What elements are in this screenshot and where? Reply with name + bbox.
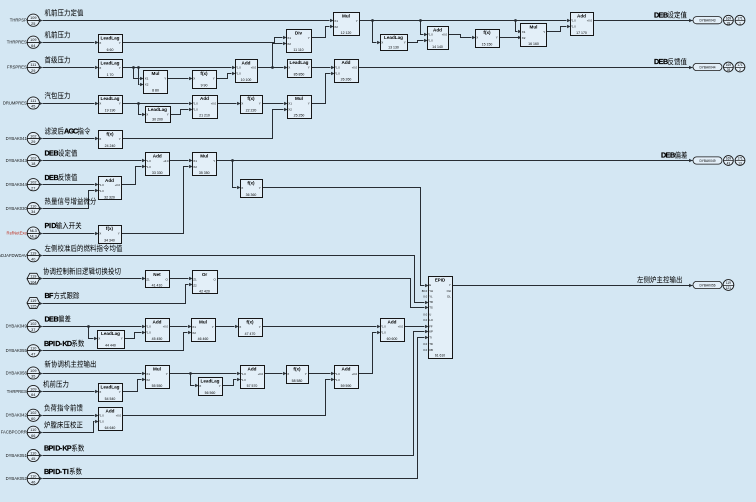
svg-text:45: 45 xyxy=(31,457,35,461)
svg-text:28: 28 xyxy=(727,68,731,72)
svg-text:YH: YH xyxy=(429,289,433,293)
svg-text:169: 169 xyxy=(726,157,732,161)
svg-text:*1.0: *1.0 xyxy=(99,183,104,187)
svg-text:P: P xyxy=(67,444,72,453)
svg-text:+0.0: +0.0 xyxy=(115,183,121,187)
svg-text:109: 109 xyxy=(30,369,36,373)
svg-text:21 210: 21 210 xyxy=(199,114,210,118)
svg-text:LeadLag: LeadLag xyxy=(148,107,167,112)
svg-text:119: 119 xyxy=(30,252,36,256)
svg-text:111: 111 xyxy=(30,63,36,67)
svg-text:*1.0: *1.0 xyxy=(428,33,433,37)
svg-text:I: I xyxy=(67,467,69,476)
svg-text:54 540: 54 540 xyxy=(105,397,116,401)
svg-text:6 60: 6 60 xyxy=(107,48,114,52)
svg-text:+0.0: +0.0 xyxy=(587,19,593,23)
svg-text:Y: Y xyxy=(119,41,121,45)
svg-text:FF: FF xyxy=(429,324,433,328)
svg-text:Y: Y xyxy=(167,113,169,117)
svg-text:169: 169 xyxy=(726,63,732,67)
svg-text:X1: X1 xyxy=(287,36,291,40)
svg-text:Y: Y xyxy=(219,384,221,388)
svg-text:Add: Add xyxy=(153,319,162,324)
svg-text:THRPRES: THRPRES xyxy=(7,40,27,45)
svg-text:57 570: 57 570 xyxy=(247,384,258,388)
svg-text:Add: Add xyxy=(106,409,115,414)
svg-text:RefNetExe: RefNetExe xyxy=(7,230,28,235)
svg-text:1: 1 xyxy=(739,21,741,25)
svg-text:47 470: 47 470 xyxy=(245,332,256,336)
svg-text:X: X xyxy=(99,137,101,141)
svg-text:DYBAK049: DYBAK049 xyxy=(6,324,28,329)
svg-text:DYBAK030: DYBAK030 xyxy=(6,206,28,211)
svg-text:f(x): f(x) xyxy=(293,367,301,372)
svg-text:0.0: 0.0 xyxy=(423,318,427,322)
svg-text:34: 34 xyxy=(31,210,35,214)
svg-text:Y: Y xyxy=(259,102,261,106)
svg-text:55 550: 55 550 xyxy=(152,384,163,388)
svg-text:46: 46 xyxy=(31,480,35,484)
svg-text:Add: Add xyxy=(342,367,351,372)
svg-text:TR: TR xyxy=(429,300,433,304)
svg-text:Mul: Mul xyxy=(199,319,207,324)
svg-text:X: X xyxy=(146,113,148,117)
svg-text:*1.0: *1.0 xyxy=(571,19,576,23)
svg-text:DYBAK056: DYBAK056 xyxy=(699,283,715,287)
svg-text:OH: OH xyxy=(447,289,451,293)
svg-text:45: 45 xyxy=(31,105,35,109)
svg-text:24 240: 24 240 xyxy=(105,144,116,148)
svg-text:Y: Y xyxy=(213,159,215,163)
svg-text:58 580: 58 580 xyxy=(292,379,303,383)
svg-text:TS: TS xyxy=(429,306,433,310)
svg-text:X: X xyxy=(193,77,195,81)
svg-text:32 320: 32 320 xyxy=(104,195,115,199)
svg-text:66: 66 xyxy=(31,434,35,438)
svg-text:DYBAK043: DYBAK043 xyxy=(699,19,715,23)
svg-text:102: 102 xyxy=(30,181,36,185)
svg-text:Add: Add xyxy=(388,319,397,324)
svg-text:f(x): f(x) xyxy=(247,181,255,186)
svg-text:YL: YL xyxy=(429,295,433,299)
svg-text:X2: X2 xyxy=(522,36,526,40)
svg-text:17 170: 17 170 xyxy=(576,31,587,35)
svg-text:33 330: 33 330 xyxy=(152,171,163,175)
svg-text:TI: TI xyxy=(429,336,432,340)
svg-text:X: X xyxy=(99,102,101,106)
svg-text:KP: KP xyxy=(429,330,433,334)
svg-text:Z2: Z2 xyxy=(193,283,197,287)
svg-text:109: 109 xyxy=(30,38,36,42)
svg-text:61 610: 61 610 xyxy=(435,353,445,357)
svg-text:Add: Add xyxy=(200,96,209,101)
svg-text:DYBAK044: DYBAK044 xyxy=(699,65,715,69)
svg-text:28: 28 xyxy=(727,21,731,25)
svg-text:Y: Y xyxy=(118,232,120,236)
svg-text:*1.0: *1.0 xyxy=(236,72,241,76)
svg-text:46 460: 46 460 xyxy=(198,337,209,341)
svg-text:Add: Add xyxy=(342,60,351,65)
svg-text:30 200: 30 200 xyxy=(152,118,163,122)
svg-text:64 640: 64 640 xyxy=(105,426,116,430)
svg-text:DYBAK056: DYBAK056 xyxy=(6,370,28,375)
svg-text:*1.0: *1.0 xyxy=(381,325,386,329)
svg-text:56 560: 56 560 xyxy=(205,391,216,395)
svg-text:121: 121 xyxy=(726,286,732,290)
svg-text:Y: Y xyxy=(496,36,498,40)
svg-text:2: 2 xyxy=(739,68,741,72)
svg-text:Or: Or xyxy=(202,272,208,277)
svg-text:B: B xyxy=(670,151,675,160)
svg-text:171: 171 xyxy=(737,157,743,161)
svg-text:16 160: 16 160 xyxy=(528,42,539,46)
svg-text:Y: Y xyxy=(119,137,121,141)
svg-text:f(x): f(x) xyxy=(246,319,254,324)
svg-text:0.0: 0.0 xyxy=(423,348,427,352)
svg-text:Add: Add xyxy=(242,61,251,66)
svg-text:44 440: 44 440 xyxy=(105,344,116,348)
svg-text:9 90: 9 90 xyxy=(201,84,208,88)
svg-text:TD: TD xyxy=(429,342,433,346)
svg-text:*1.0: *1.0 xyxy=(571,25,576,29)
svg-text:f(x): f(x) xyxy=(483,30,491,35)
svg-text:LeadLag: LeadLag xyxy=(101,331,120,336)
svg-text:X2: X2 xyxy=(193,165,197,169)
svg-text:26 260: 26 260 xyxy=(341,78,352,82)
svg-text:111: 111 xyxy=(30,99,36,103)
svg-text:25: 25 xyxy=(31,22,35,26)
svg-text:60: 60 xyxy=(31,417,35,421)
svg-text:*1.0: *1.0 xyxy=(193,101,198,105)
svg-text:X1: X1 xyxy=(192,325,196,329)
svg-text:B: B xyxy=(54,314,59,323)
svg-text:X1: X1 xyxy=(145,77,149,81)
svg-text:NL3: NL3 xyxy=(30,229,37,233)
svg-text:1 70: 1 70 xyxy=(107,73,114,77)
svg-text:THRPRES: THRPRES xyxy=(7,389,27,394)
svg-text:18: 18 xyxy=(31,162,35,166)
svg-text:+0.0: +0.0 xyxy=(211,101,217,105)
svg-text:DYBAK042: DYBAK042 xyxy=(6,413,28,418)
svg-text:X: X xyxy=(288,66,290,70)
svg-text:Mul: Mul xyxy=(342,13,350,18)
svg-text:Y: Y xyxy=(212,325,214,329)
svg-text:19 190: 19 190 xyxy=(105,109,116,113)
svg-text:FRSPRES: FRSPRES xyxy=(7,65,27,70)
svg-text:FACBPCORR: FACBPCORR xyxy=(1,430,27,435)
svg-text:+0.0: +0.0 xyxy=(442,33,448,37)
svg-text:*1.0: *1.0 xyxy=(146,331,151,335)
svg-text:Mul: Mul xyxy=(530,25,538,30)
svg-text:*1.0: *1.0 xyxy=(241,378,246,382)
svg-text:47: 47 xyxy=(31,352,35,356)
svg-text:X: X xyxy=(287,372,289,376)
svg-text:X2: X2 xyxy=(287,42,291,46)
svg-text:22 220: 22 220 xyxy=(246,109,257,113)
svg-text:+0.0: +0.0 xyxy=(116,414,122,418)
svg-text:D: D xyxy=(67,339,72,348)
svg-text:KB: KB xyxy=(429,348,433,352)
svg-text:27: 27 xyxy=(31,186,35,190)
svg-text:DYBAK044: DYBAK044 xyxy=(6,182,28,187)
svg-text:DYBAK051: DYBAK051 xyxy=(6,453,28,458)
svg-text:B: B xyxy=(663,57,668,66)
svg-text:Y: Y xyxy=(356,19,358,23)
svg-text:12 120: 12 120 xyxy=(341,31,352,35)
svg-text:43: 43 xyxy=(727,162,731,166)
svg-text:169: 169 xyxy=(726,16,732,20)
svg-text:*1.0: *1.0 xyxy=(428,39,433,43)
svg-text:*1.0: *1.0 xyxy=(381,331,386,335)
svg-text:Add: Add xyxy=(433,27,442,32)
svg-text:110: 110 xyxy=(30,428,36,432)
svg-text:X: X xyxy=(99,41,101,45)
svg-text:Y: Y xyxy=(164,77,166,81)
svg-text:ADJAFDWDAV: ADJAFDWDAV xyxy=(0,253,27,258)
svg-text:X: X xyxy=(239,325,241,329)
svg-text:45 450: 45 450 xyxy=(152,337,163,341)
svg-text:X2: X2 xyxy=(146,378,150,382)
svg-text:Y: Y xyxy=(308,66,310,70)
svg-text:8 80: 8 80 xyxy=(152,89,159,93)
svg-text:+0.0: +0.0 xyxy=(398,325,404,329)
svg-text:X2: X2 xyxy=(192,331,196,335)
svg-text:29: 29 xyxy=(31,140,35,144)
svg-text:0.0: 0.0 xyxy=(423,295,427,299)
svg-text:D: D xyxy=(51,221,56,230)
svg-text:Mul: Mul xyxy=(295,96,303,101)
svg-text:85 850: 85 850 xyxy=(294,73,305,77)
svg-text:F: F xyxy=(49,291,54,300)
svg-text:Y: Y xyxy=(121,337,123,341)
svg-text:*1.0: *1.0 xyxy=(335,71,340,75)
svg-text:104: 104 xyxy=(30,280,36,284)
svg-text:Mul: Mul xyxy=(153,367,161,372)
svg-text:36 360: 36 360 xyxy=(246,193,257,197)
svg-text:B: B xyxy=(54,173,59,182)
svg-text:*1.0: *1.0 xyxy=(146,325,151,329)
svg-text:11 110: 11 110 xyxy=(293,48,303,52)
svg-text:+0.0: +0.0 xyxy=(163,325,169,329)
svg-text:X: X xyxy=(381,41,383,45)
svg-text:f(x): f(x) xyxy=(106,226,114,231)
svg-text:f(x): f(x) xyxy=(247,96,255,101)
svg-text:64: 64 xyxy=(31,44,35,48)
svg-text:102: 102 xyxy=(30,156,36,160)
svg-text:+0.0: +0.0 xyxy=(258,372,264,376)
svg-text:DYBAK041: DYBAK041 xyxy=(6,136,28,141)
svg-text:29: 29 xyxy=(31,69,35,73)
svg-text:U: U xyxy=(429,313,431,317)
svg-text:41 410: 41 410 xyxy=(152,283,163,287)
svg-text:X2: X2 xyxy=(288,108,292,112)
svg-text:LeadLag: LeadLag xyxy=(101,35,120,40)
svg-text:THRPSP: THRPSP xyxy=(10,18,27,23)
svg-text:Y: Y xyxy=(213,77,215,81)
svg-text:Y: Y xyxy=(259,186,261,190)
svg-text:+0.0: +0.0 xyxy=(352,65,358,69)
svg-text:DYBAK052: DYBAK052 xyxy=(6,476,28,481)
svg-text:13 130: 13 130 xyxy=(388,46,399,50)
svg-text:Add: Add xyxy=(153,154,162,159)
svg-text:102: 102 xyxy=(30,322,36,326)
svg-text:Y: Y xyxy=(449,283,451,287)
svg-text:Y: Y xyxy=(259,325,261,329)
svg-text:119: 119 xyxy=(30,275,36,279)
svg-text:LeadLag: LeadLag xyxy=(201,379,220,384)
svg-text:25 250: 25 250 xyxy=(294,114,305,118)
svg-text:X: X xyxy=(99,232,101,236)
svg-text:DL: DL xyxy=(447,295,451,299)
svg-text:X1: X1 xyxy=(522,30,526,34)
svg-text:*1.0: *1.0 xyxy=(335,378,340,382)
svg-text:X1: X1 xyxy=(193,159,197,163)
svg-text:E: E xyxy=(429,283,431,287)
svg-text:DYBAK049: DYBAK049 xyxy=(699,159,715,163)
svg-text:59 590: 59 590 xyxy=(341,384,352,388)
svg-text:X2: X2 xyxy=(145,83,149,87)
svg-text:C: C xyxy=(73,127,78,136)
svg-text:LeadLag: LeadLag xyxy=(101,96,120,101)
svg-text:15 150: 15 150 xyxy=(482,43,493,47)
svg-text:171: 171 xyxy=(737,16,743,20)
svg-text:X: X xyxy=(199,384,201,388)
svg-text:EPID: EPID xyxy=(435,277,445,282)
svg-text:42 420: 42 420 xyxy=(199,289,210,293)
svg-text:40: 40 xyxy=(31,257,35,261)
svg-text:X: X xyxy=(98,337,100,341)
svg-text:109: 109 xyxy=(30,16,36,20)
svg-text:Mul: Mul xyxy=(152,71,160,76)
svg-text:37: 37 xyxy=(31,328,35,332)
svg-text:0.0: 0.0 xyxy=(423,342,427,346)
svg-text:f(x): f(x) xyxy=(106,132,114,137)
svg-text:110: 110 xyxy=(30,205,36,209)
svg-text:13: 13 xyxy=(738,162,742,166)
svg-text:Div: Div xyxy=(295,31,303,36)
svg-text:109: 109 xyxy=(30,387,36,391)
svg-text:Y: Y xyxy=(305,372,307,376)
svg-text:*1.0: *1.0 xyxy=(99,420,104,424)
svg-text:102: 102 xyxy=(30,134,36,138)
svg-text:Z1: Z1 xyxy=(146,277,150,281)
svg-text:f(x): f(x) xyxy=(200,71,208,76)
svg-text:Y: Y xyxy=(119,102,121,106)
svg-text:*1.0: *1.0 xyxy=(241,372,246,376)
svg-text:*1.0: *1.0 xyxy=(99,189,104,193)
svg-text:LeadLag: LeadLag xyxy=(290,60,309,65)
svg-text:LeadLag: LeadLag xyxy=(101,61,120,66)
svg-text:Add: Add xyxy=(248,367,257,372)
svg-text:LeadLag: LeadLag xyxy=(384,35,403,40)
svg-text:Y: Y xyxy=(404,41,406,45)
svg-text:35 350: 35 350 xyxy=(199,171,210,175)
svg-text:110: 110 xyxy=(30,475,36,479)
svg-text:X2: X2 xyxy=(334,25,338,29)
svg-text:*1.0: *1.0 xyxy=(99,414,104,418)
svg-text:Y: Y xyxy=(308,102,310,106)
svg-text:*1.0: *1.0 xyxy=(146,159,151,163)
svg-text:35: 35 xyxy=(31,375,35,379)
svg-text:Net: Net xyxy=(153,272,161,277)
svg-text:60 600: 60 600 xyxy=(387,337,398,341)
svg-text:14 140: 14 140 xyxy=(432,45,443,49)
svg-text:DYBAK055: DYBAK055 xyxy=(6,348,28,353)
svg-text:DYBAK043: DYBAK043 xyxy=(6,158,28,163)
svg-text:X1: X1 xyxy=(288,102,292,106)
svg-text:Y: Y xyxy=(543,30,545,34)
svg-text:B: B xyxy=(54,149,59,158)
svg-text:B: B xyxy=(663,10,668,19)
svg-text:+0.0: +0.0 xyxy=(163,159,169,163)
svg-text:Y: Y xyxy=(119,390,121,394)
svg-text:119: 119 xyxy=(726,281,731,285)
svg-text:+0.0: +0.0 xyxy=(251,66,257,70)
svg-text:110: 110 xyxy=(30,451,36,455)
svg-text:Y: Y xyxy=(166,372,168,376)
svg-text:*1.0: *1.0 xyxy=(193,107,198,111)
svg-text:*1.0: *1.0 xyxy=(335,65,340,69)
svg-text:X: X xyxy=(476,36,478,40)
svg-text:DRUMPRES: DRUMPRES xyxy=(3,100,27,105)
svg-text:*1.0: *1.0 xyxy=(335,372,340,376)
svg-text:80.0: 80.0 xyxy=(422,289,428,293)
svg-text:Y: Y xyxy=(119,66,121,70)
svg-text:119: 119 xyxy=(30,299,36,303)
svg-text:X: X xyxy=(241,102,243,106)
svg-text:*1.0: *1.0 xyxy=(236,66,241,70)
svg-text:125: 125 xyxy=(30,305,36,309)
svg-text:Add: Add xyxy=(577,13,586,18)
svg-text:X: X xyxy=(99,66,101,70)
svg-text:110: 110 xyxy=(30,347,36,351)
svg-text:NL3: NL3 xyxy=(30,235,37,239)
svg-text:LeadLag: LeadLag xyxy=(101,385,120,390)
svg-text:102: 102 xyxy=(30,411,36,415)
svg-text:Add: Add xyxy=(105,178,114,183)
svg-text:Z1: Z1 xyxy=(193,277,197,281)
svg-text:64: 64 xyxy=(31,393,35,397)
svg-text:X1: X1 xyxy=(334,19,338,23)
svg-text:X: X xyxy=(241,186,243,190)
svg-text:Y: Y xyxy=(308,36,310,40)
svg-text:Mul: Mul xyxy=(200,154,208,159)
svg-text:171: 171 xyxy=(737,63,743,67)
svg-text:0.0: 0.0 xyxy=(423,313,427,317)
svg-text:*1.0: *1.0 xyxy=(146,165,151,169)
svg-text:34 340: 34 340 xyxy=(104,239,115,243)
svg-text:+0.0: +0.0 xyxy=(352,372,358,376)
svg-text:X1: X1 xyxy=(146,372,150,376)
svg-text:10 100: 10 100 xyxy=(241,78,252,82)
svg-text:X: X xyxy=(99,390,101,394)
